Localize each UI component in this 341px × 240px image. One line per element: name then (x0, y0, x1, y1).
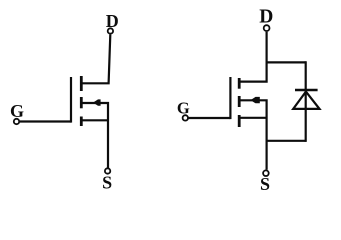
svg-text:G: G (10, 101, 24, 121)
svg-text:S: S (260, 174, 270, 194)
svg-text:G: G (177, 99, 190, 118)
svg-text:D: D (259, 7, 273, 28)
svg-text:S: S (102, 172, 112, 192)
svg-text:D: D (106, 11, 119, 31)
